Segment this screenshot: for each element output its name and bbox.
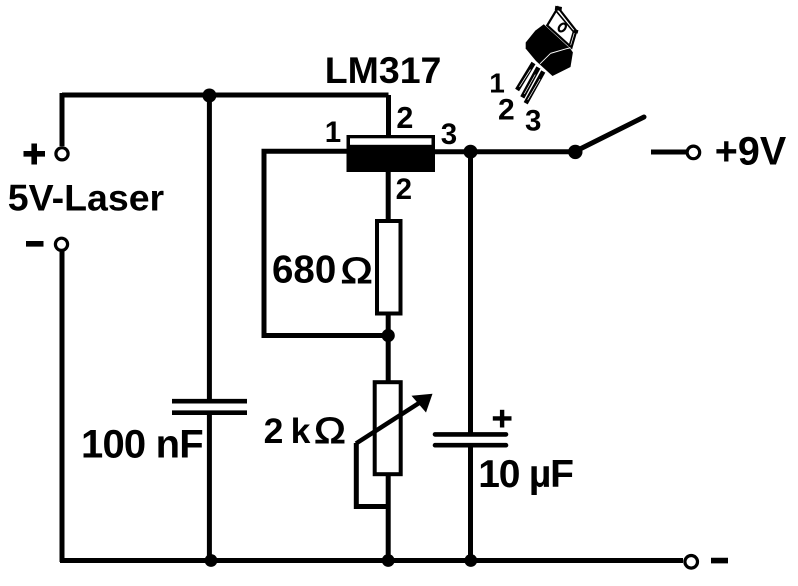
svg-text:5V-Laser: 5V-Laser (8, 176, 165, 218)
svg-text:2 k: 2 k (264, 411, 311, 451)
svg-text:2: 2 (396, 173, 412, 206)
svg-text:100 nF: 100 nF (81, 423, 203, 467)
svg-text:+9V: +9V (715, 129, 787, 173)
svg-text:Ω: Ω (341, 250, 373, 291)
svg-text:2: 2 (396, 101, 413, 135)
svg-text:3: 3 (441, 118, 457, 151)
svg-text:Ω: Ω (314, 410, 345, 451)
svg-text:680: 680 (272, 249, 336, 292)
svg-text:2: 2 (498, 93, 515, 126)
svg-text:1: 1 (325, 116, 341, 149)
svg-text:3: 3 (525, 104, 541, 137)
svg-text:LM317: LM317 (325, 49, 442, 91)
svg-text:10 µF: 10 µF (478, 453, 573, 496)
